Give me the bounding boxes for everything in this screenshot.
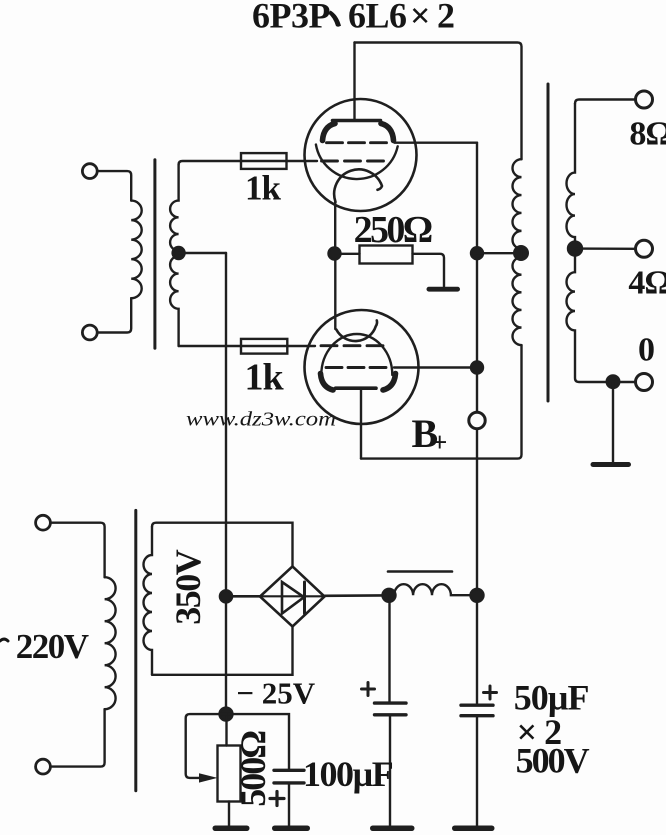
wire T2 primary bottom to V2 plate	[361, 345, 522, 458]
D1 diode triangle	[282, 582, 304, 614]
L1 winding	[389, 584, 477, 595]
terminal 0	[636, 374, 653, 391]
tube V2	[305, 254, 478, 459]
T1 core	[153, 160, 156, 348]
svg-text:1k: 1k	[245, 168, 282, 207]
V1 screen grid	[327, 141, 387, 144]
T2 secondary lower winding	[567, 249, 636, 382]
node screen bus at V2 screen	[471, 362, 483, 374]
svg-text:− 25V: − 25V	[236, 675, 315, 710]
V2 screen lead	[394, 366, 477, 368]
wire input top to T1 primary	[97, 171, 131, 201]
wire V1 plate to T2 top	[355, 43, 522, 160]
svg-text:6L6: 6L6	[348, 0, 407, 35]
plus sign C3	[270, 792, 284, 806]
bridge rectifier D1	[220, 566, 389, 626]
wire bridge positive to choke	[325, 594, 390, 597]
node screen bus at 253	[471, 247, 483, 259]
T3 core	[134, 510, 137, 790]
svg-text:6P3P: 6P3P	[252, 0, 330, 35]
svg-text:250Ω: 250Ω	[354, 209, 432, 251]
V2 heater loop	[336, 320, 377, 341]
V1 cathode lead	[334, 202, 336, 254]
ground RP	[213, 826, 250, 832]
terminal 4 ohm	[636, 240, 653, 257]
V1 beam plate left	[323, 124, 336, 141]
node 0 tap ground junction	[607, 375, 620, 388]
node choke output	[471, 589, 484, 602]
input terminal top	[82, 164, 97, 179]
V1 beam plate right	[381, 124, 394, 141]
choke L1	[383, 572, 484, 602]
V2 envelope	[305, 310, 419, 424]
node T1 center tap	[173, 247, 185, 259]
T2 secondary upper winding	[567, 104, 576, 249]
transformer T1 secondary upper winding	[170, 165, 178, 254]
input terminal bottom	[82, 325, 97, 340]
output transformer T2	[355, 43, 653, 468]
resistor R2 1k	[241, 345, 287, 347]
wire T1 primary to input bottom	[97, 298, 131, 332]
svg-text:www.dz3w.com: www.dz3w.com	[186, 409, 336, 431]
ground C3	[272, 826, 310, 832]
bias network	[186, 708, 310, 831]
V1 envelope	[305, 99, 417, 211]
wire R1 to V1 grid	[287, 160, 318, 162]
potentiometer RP 500 ohm	[225, 714, 227, 745]
ground C1	[370, 826, 415, 832]
V1 screen lead	[395, 141, 478, 143]
wire bias line vertical	[225, 253, 227, 714]
node bias junction	[220, 590, 232, 602]
power transformer T3	[36, 510, 293, 790]
V2 beam plate right	[383, 374, 396, 391]
wire screen bus vertical	[476, 143, 478, 413]
capacitor C2 50uF	[452, 686, 497, 831]
wire R2 to V2 grid	[287, 345, 315, 347]
capacitor C1 50uF	[362, 595, 415, 831]
wire 0 tap to ground	[612, 382, 614, 462]
svg-text:2: 2	[437, 0, 455, 35]
ground C2	[452, 826, 495, 832]
node 4 ohm tap	[568, 242, 582, 256]
svg-text:500Ω: 500Ω	[233, 731, 273, 807]
terminal B+	[469, 412, 485, 428]
wire 350V top to bridge	[152, 523, 293, 567]
svg-text:220V: 220V	[16, 627, 89, 666]
T2 primary upper winding	[513, 159, 522, 249]
svg-text:350V: 350V	[168, 549, 208, 625]
V2 plate	[336, 386, 377, 390]
svg-text:4Ω: 4Ω	[628, 264, 666, 301]
T2 core	[547, 84, 550, 401]
L1 core	[388, 570, 452, 573]
wire T3 primary to mains bottom	[50, 709, 104, 766]
svg-text:8Ω: 8Ω	[629, 115, 666, 152]
V2 cathode	[321, 334, 392, 375]
node -25V	[220, 708, 233, 721]
svg-text:+: +	[432, 427, 447, 457]
V1 cathode	[316, 145, 398, 180]
transformer T1 primary winding	[131, 201, 142, 299]
ground R3	[427, 287, 461, 292]
transformer T1 secondary lower winding	[170, 253, 179, 346]
V2 cathode lead	[334, 254, 336, 330]
terminal 8 ohm	[636, 91, 653, 108]
wire mains top to T3 primary	[50, 523, 104, 578]
V2 plate lead	[360, 388, 362, 458]
T2 primary lower winding	[513, 249, 522, 345]
T3 secondary 350V winding	[144, 527, 153, 675]
screen bus and B+	[469, 143, 521, 706]
svg-text:100µF: 100µF	[303, 754, 393, 794]
node T2 center tap	[514, 246, 528, 260]
mains terminal top	[36, 515, 51, 530]
T3 primary winding	[105, 577, 116, 709]
wire -25V to C3	[226, 714, 289, 770]
wiper arrow head	[199, 773, 218, 782]
V2 control grid	[321, 344, 383, 347]
tube V1	[305, 43, 478, 254]
wire through bridge	[260, 595, 325, 597]
title label 6P3P, 6L6 x 2	[252, 0, 455, 35]
wire bus to primary center tap	[477, 252, 521, 254]
wire B+ to choke	[476, 429, 478, 706]
wiper wire	[186, 714, 226, 778]
V1 plate lead	[353, 43, 355, 121]
label ~220V	[0, 639, 8, 641]
wire T1 secondary bottom to R2	[179, 345, 241, 347]
plus sign C1	[362, 683, 375, 696]
resistor R3 250 ohm	[329, 246, 461, 292]
V1 control grid	[322, 160, 384, 163]
label 50uF x2 500V	[514, 677, 590, 780]
svg-text:1k: 1k	[245, 356, 285, 398]
wire 4 ohm tap	[575, 247, 635, 250]
V1 heater loop	[334, 169, 382, 202]
svg-text:500V: 500V	[516, 740, 590, 780]
wire center tap to bias line	[179, 252, 226, 254]
mains terminal bottom	[36, 759, 51, 774]
svg-text:×: ×	[410, 0, 431, 35]
ground secondary	[591, 462, 632, 467]
wire bridge negative to bias line	[226, 595, 260, 598]
V2 beam plate left	[321, 374, 334, 391]
resistor R1 1k	[241, 160, 287, 162]
wire 8 ohm tap	[575, 100, 636, 104]
plus sign C2	[484, 686, 497, 699]
V2 screen grid	[326, 366, 386, 369]
node choke input	[383, 589, 396, 602]
node cathode junction	[329, 248, 341, 260]
wire R3 to ground	[413, 254, 445, 287]
D1 diode bar	[303, 582, 306, 614]
wire T1 secondary top to R1	[179, 161, 241, 165]
wire 350V bottom to bridge	[152, 627, 293, 675]
V1 plate	[333, 119, 381, 123]
capacitor C3 100uF	[274, 769, 304, 772]
svg-text:0: 0	[638, 331, 655, 368]
